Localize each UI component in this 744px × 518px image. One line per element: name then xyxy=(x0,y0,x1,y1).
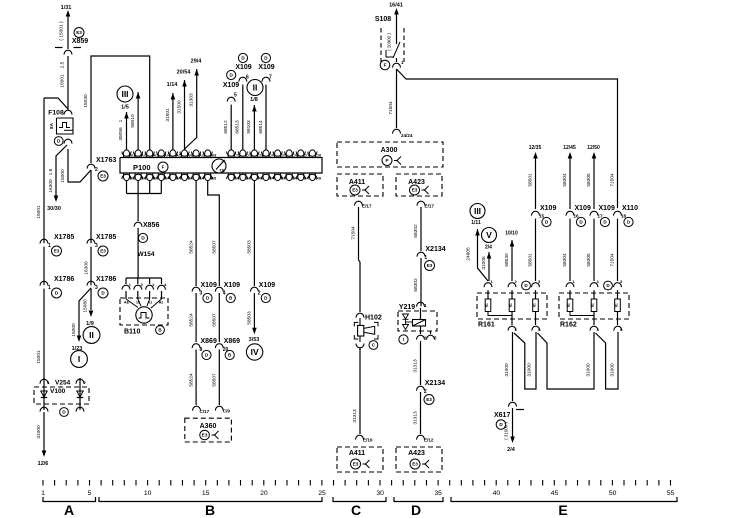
svg-text:III: III xyxy=(121,89,128,99)
svg-text:12/45: 12/45 xyxy=(563,145,576,151)
svg-text:15001: 15001 xyxy=(36,350,42,364)
svg-text:1/14: 1/14 xyxy=(167,82,179,88)
svg-text:58503: 58503 xyxy=(247,311,253,325)
svg-text:E3: E3 xyxy=(202,433,208,438)
svg-text:31313: 31313 xyxy=(413,411,419,425)
svg-text:A/8: A/8 xyxy=(211,154,217,158)
section bracket E xyxy=(451,497,677,502)
svg-text:58524: 58524 xyxy=(188,240,194,254)
svg-text:X110: X110 xyxy=(622,205,638,212)
svg-text:2/4: 2/4 xyxy=(485,245,492,251)
svg-text:X869: X869 xyxy=(201,338,217,345)
svg-text:Y219: Y219 xyxy=(399,304,415,311)
svg-text:2: 2 xyxy=(424,389,427,395)
section bracket A xyxy=(43,497,96,502)
svg-text:3: 3 xyxy=(200,291,203,297)
svg-text:68514: 68514 xyxy=(258,120,264,134)
svg-text:S108: S108 xyxy=(375,16,391,23)
svg-text:50: 50 xyxy=(609,490,617,497)
svg-text:58501: 58501 xyxy=(528,173,534,187)
svg-text:15000: 15000 xyxy=(60,169,66,183)
svg-text:1: 1 xyxy=(401,60,404,65)
control unit P100 box xyxy=(120,158,322,174)
svg-text:20: 20 xyxy=(260,490,268,497)
svg-text:16300: 16300 xyxy=(84,261,90,275)
connector X869 pin 20 xyxy=(218,348,221,351)
svg-text:E3: E3 xyxy=(352,188,358,193)
svg-text:X109: X109 xyxy=(258,64,274,71)
svg-text:3/53: 3/53 xyxy=(249,337,260,343)
diode V254 xyxy=(79,378,81,410)
svg-text:15001: 15001 xyxy=(60,74,66,88)
svg-text:4: 4 xyxy=(223,291,226,297)
wire 58524 B/7 chain xyxy=(195,180,197,286)
svg-text:V254: V254 xyxy=(55,380,71,387)
svg-text:X109: X109 xyxy=(259,282,275,289)
svg-text:A411: A411 xyxy=(349,450,365,457)
svg-text:X2134: X2134 xyxy=(425,246,445,253)
Y219 pins 2 and 5 xyxy=(420,326,422,334)
svg-text:1: 1 xyxy=(41,490,45,497)
svg-text:W154: W154 xyxy=(138,251,155,258)
svg-text:1: 1 xyxy=(129,283,131,287)
svg-text:E3: E3 xyxy=(100,174,106,179)
svg-text:X109: X109 xyxy=(575,205,591,212)
svg-text:1: 1 xyxy=(424,303,427,308)
svg-text:D: D xyxy=(411,502,421,518)
svg-text:31303: 31303 xyxy=(189,93,195,107)
svg-text:F.B: F.B xyxy=(220,169,225,173)
svg-text:I: I xyxy=(403,337,404,342)
svg-text:68530: 68530 xyxy=(504,253,510,267)
svg-text:E3: E3 xyxy=(353,462,359,467)
svg-text:2.5: 2.5 xyxy=(60,61,66,68)
control unit A360 xyxy=(185,418,232,442)
svg-text:X1763: X1763 xyxy=(96,157,116,164)
svg-text:30: 30 xyxy=(376,490,384,497)
svg-text:( 31000 ): ( 31000 ) xyxy=(504,422,509,440)
svg-text:X109: X109 xyxy=(224,282,240,289)
wire 31313 to E/12 xyxy=(420,392,422,434)
svg-text:8A: 8A xyxy=(49,122,54,129)
svg-text:B/8: B/8 xyxy=(211,177,217,181)
fuse F108 8A xyxy=(67,114,70,117)
svg-text:P100: P100 xyxy=(133,163,151,172)
svg-text:24805: 24805 xyxy=(466,247,472,261)
P100 pin row A (top) xyxy=(124,150,130,154)
svg-text:1/9: 1/9 xyxy=(86,321,94,327)
svg-text:5: 5 xyxy=(434,336,437,341)
svg-text:E/17: E/17 xyxy=(425,204,435,209)
svg-text:3: 3 xyxy=(141,283,143,287)
svg-text:10: 10 xyxy=(144,490,152,497)
crossover wire R161.6 to R162.4 xyxy=(538,332,595,389)
svg-text:E: E xyxy=(558,502,567,518)
wire 31501 A/5 to 1/14 xyxy=(172,93,174,150)
svg-text:I: I xyxy=(78,354,80,364)
horn H102 xyxy=(359,317,362,320)
wire 31313 to E/10 xyxy=(359,347,361,434)
resistor pack R162 xyxy=(559,293,629,319)
wire 71504 to horn xyxy=(358,207,360,260)
svg-text:X109: X109 xyxy=(599,205,615,212)
svg-text:E3: E3 xyxy=(76,30,82,35)
svg-text:68302: 68302 xyxy=(413,224,419,238)
wire 31000 R161.4 to X617 xyxy=(512,332,514,401)
svg-text:31501: 31501 xyxy=(165,108,171,122)
svg-text:( 20900 ): ( 20900 ) xyxy=(387,33,392,51)
svg-text:2: 2 xyxy=(95,167,98,173)
svg-text:X109: X109 xyxy=(540,205,556,212)
svg-text:E/17: E/17 xyxy=(362,204,372,209)
connector X869 pin 8 xyxy=(195,348,198,351)
wire 71504 down to A300 xyxy=(396,69,398,128)
svg-text:58010: 58010 xyxy=(130,114,136,128)
svg-text:31500: 31500 xyxy=(176,100,182,114)
svg-text:E3: E3 xyxy=(54,249,60,254)
svg-text:P: P xyxy=(385,158,388,163)
svg-text:B110: B110 xyxy=(124,329,140,336)
svg-text:58304: 58304 xyxy=(562,173,568,187)
wire 31000 to ground 12/6 xyxy=(43,412,45,451)
svg-text:F: F xyxy=(384,63,387,68)
wires B/1-B/4 to X856 xyxy=(126,180,128,194)
connector E/17 (A411) xyxy=(357,205,360,208)
ground loop R161 pin 6 xyxy=(514,332,536,389)
wire 58010 A/2 xyxy=(137,92,139,150)
svg-text:58304: 58304 xyxy=(562,253,568,267)
wire 15000 back to fuse output xyxy=(68,149,91,182)
svg-text:1: 1 xyxy=(48,285,51,291)
svg-text:X2134: X2134 xyxy=(425,380,445,387)
wire 71504 R162.3 to X110 pin 18 xyxy=(617,216,619,281)
control unit A411 (top) xyxy=(337,174,383,196)
diode box V254 / V100 xyxy=(43,383,46,386)
svg-text:35: 35 xyxy=(434,490,442,497)
svg-text:D/8: D/8 xyxy=(315,177,321,181)
wire 15001 2.5 to fuse F108 xyxy=(67,56,69,110)
svg-text:X856: X856 xyxy=(143,222,159,229)
svg-text:C/9: C/9 xyxy=(223,409,231,414)
connector X1786 pin 3 xyxy=(90,285,93,288)
svg-text:X109: X109 xyxy=(235,64,251,71)
resistor pack R161 xyxy=(477,293,547,319)
svg-text:X869: X869 xyxy=(224,338,240,345)
left rail 15001 top corner xyxy=(44,98,68,109)
speed sensor B110 xyxy=(126,277,162,279)
wire 31006 R161.1 to 2/4, circle V xyxy=(488,252,490,281)
svg-text:16300: 16300 xyxy=(48,179,54,193)
connector E/10 into A411 xyxy=(358,439,361,442)
svg-text:68302: 68302 xyxy=(413,278,419,292)
svg-text:X1785: X1785 xyxy=(54,234,74,241)
svg-text:E/10: E/10 xyxy=(363,438,373,443)
svg-text:E3: E3 xyxy=(412,188,418,193)
wire 16300 1.5 to 30/30 xyxy=(56,145,67,196)
svg-text:8: 8 xyxy=(200,347,203,353)
P100 pin row B (bottom) xyxy=(124,177,130,181)
svg-text:31000: 31000 xyxy=(610,363,616,377)
svg-text:71504: 71504 xyxy=(388,101,394,115)
connector X1785 pin 3 xyxy=(90,243,93,246)
section bracket D xyxy=(394,497,443,502)
svg-text:31000: 31000 xyxy=(36,425,42,439)
wire 58305 R162.2 to X109 pin 17 and 12/50 xyxy=(593,216,595,281)
svg-text:16/41: 16/41 xyxy=(389,3,403,9)
svg-text:31000: 31000 xyxy=(504,363,510,377)
svg-text:31313: 31313 xyxy=(413,359,419,373)
wire 31313 xyxy=(420,341,422,385)
svg-text:X859: X859 xyxy=(72,38,88,45)
svg-text:R1: R1 xyxy=(567,303,571,307)
svg-text:E3: E3 xyxy=(427,263,433,268)
svg-text:31000: 31000 xyxy=(527,363,533,377)
switch output: circle F, pin 1 xyxy=(380,60,390,70)
svg-text:X617: X617 xyxy=(494,412,510,419)
svg-text:R1: R1 xyxy=(591,303,595,307)
wire 58304 R162.1 to X109 pin 16 and 12/45 xyxy=(569,216,571,281)
svg-text:IV: IV xyxy=(251,347,259,357)
svg-text:58501: 58501 xyxy=(528,253,534,267)
control unit A411 (bottom) xyxy=(337,447,383,472)
svg-text:H102: H102 xyxy=(365,315,382,322)
wire 24805 R161.1 to 1/11, circle III xyxy=(478,229,489,281)
svg-text:68513: 68513 xyxy=(235,120,241,134)
P100 pin row D (bottom) xyxy=(228,177,234,181)
wire 68530 R161.2 to 10/10 xyxy=(511,240,513,281)
svg-text:58103: 58103 xyxy=(246,120,252,134)
svg-text:3: 3 xyxy=(95,285,98,291)
connector X2134 pin 2 xyxy=(419,390,422,393)
svg-text:R1: R1 xyxy=(615,303,619,307)
wire 15001 left rail xyxy=(43,98,45,380)
svg-text:2: 2 xyxy=(152,283,154,287)
svg-text:X1786: X1786 xyxy=(54,276,74,283)
svg-text:12/6: 12/6 xyxy=(38,461,49,467)
connector E/12 into A423 xyxy=(419,439,422,442)
svg-text:B: B xyxy=(205,502,215,518)
svg-text:X1785: X1785 xyxy=(96,234,116,241)
svg-text:III: III xyxy=(474,206,481,216)
svg-text:15: 15 xyxy=(202,490,210,497)
connector X1785 pin 1 xyxy=(43,243,46,246)
connector C/9 into A360 xyxy=(218,410,221,413)
wire 16300 down xyxy=(90,170,92,310)
svg-text:R1: R1 xyxy=(509,303,513,307)
svg-text:1/31: 1/31 xyxy=(61,5,72,11)
svg-text:E3: E3 xyxy=(100,249,106,254)
svg-text:( 15001 ): ( 15001 ) xyxy=(59,21,65,41)
svg-text:58507: 58507 xyxy=(212,373,218,387)
svg-text:71504: 71504 xyxy=(610,253,616,267)
svg-text:X109: X109 xyxy=(223,82,239,89)
svg-text:V: V xyxy=(486,230,492,240)
svg-text:31000: 31000 xyxy=(586,363,592,377)
svg-text:1/11: 1/11 xyxy=(471,220,481,226)
connector X109 pin 2 xyxy=(253,291,256,294)
svg-text:3: 3 xyxy=(95,243,98,249)
svg-text:A360: A360 xyxy=(200,423,217,430)
svg-text:II: II xyxy=(253,82,258,92)
svg-text:15001: 15001 xyxy=(36,205,42,219)
svg-text:2: 2 xyxy=(258,291,261,297)
svg-text:55: 55 xyxy=(667,490,675,497)
svg-text:30/30: 30/30 xyxy=(47,206,61,212)
svg-text:X1786: X1786 xyxy=(96,276,116,283)
wire 71504 branch to section E xyxy=(397,69,618,208)
svg-text:R1: R1 xyxy=(485,303,489,307)
svg-text:1/8: 1/8 xyxy=(250,97,258,103)
svg-text:E3: E3 xyxy=(412,462,418,467)
svg-text:12/50: 12/50 xyxy=(587,145,600,151)
wire 58507 B/8 chain xyxy=(208,180,220,286)
wire 68302 to Y219 xyxy=(420,258,422,308)
wire 68512 C/1 to X109 pin 5 xyxy=(230,101,232,150)
svg-text:5: 5 xyxy=(88,490,92,497)
svg-text:58507: 58507 xyxy=(212,240,218,254)
svg-text:58503: 58503 xyxy=(247,240,253,254)
connector X1786 pin 1 xyxy=(43,285,46,288)
control unit A300 xyxy=(337,142,443,167)
svg-text:29/4: 29/4 xyxy=(191,59,203,65)
svg-text:C: C xyxy=(351,502,361,518)
svg-text:C/17: C/17 xyxy=(200,409,210,414)
wire 31303 A/6 to 29/4 xyxy=(185,69,197,149)
svg-text:1.5: 1.5 xyxy=(48,168,54,175)
section bracket B xyxy=(99,497,322,502)
svg-text:R162: R162 xyxy=(560,322,577,329)
svg-text:58305: 58305 xyxy=(586,253,592,267)
wire W154 to B110 xyxy=(137,228,139,278)
wire 68302 from E/17 xyxy=(420,207,422,251)
svg-text:58524: 58524 xyxy=(188,313,194,327)
svg-text:R161: R161 xyxy=(478,322,495,329)
svg-text:2/4: 2/4 xyxy=(507,447,516,453)
svg-text:40: 40 xyxy=(493,490,501,497)
diode V100 xyxy=(43,378,45,410)
svg-text:58524: 58524 xyxy=(188,373,194,387)
connector X859 xyxy=(55,47,63,49)
svg-text:1/5: 1/5 xyxy=(121,105,129,111)
fuse output node, circle D xyxy=(54,137,63,146)
svg-text:C/8: C/8 xyxy=(315,154,321,158)
svg-text:39056: 39056 xyxy=(118,127,124,141)
wire 15000 to node 1/23, circle I xyxy=(79,288,91,336)
wire 68513 C/2 to X109 pin 6 xyxy=(242,81,244,150)
svg-text:45: 45 xyxy=(551,490,559,497)
wire 15030 from P100 A/3 corner xyxy=(91,56,150,163)
connector X617 xyxy=(511,406,514,409)
svg-text:58305: 58305 xyxy=(586,173,592,187)
wire 68514 C/4 to X109 pin 7 xyxy=(265,81,267,150)
svg-text:X109: X109 xyxy=(201,282,217,289)
svg-text:F: F xyxy=(162,165,165,170)
svg-text:31313: 31313 xyxy=(352,409,358,423)
wire 15001 from 1/31 to X859 xyxy=(67,16,69,49)
svg-text:58507: 58507 xyxy=(212,313,218,327)
svg-text:A423: A423 xyxy=(408,450,425,457)
wire 58103 C/3 to 1/8, circle II xyxy=(253,105,255,150)
svg-text:5: 5 xyxy=(234,93,237,99)
connector X2134 pin 1 xyxy=(420,256,423,259)
svg-text:15000: 15000 xyxy=(71,323,77,337)
wire 31500 A/6 to 20/54 xyxy=(184,80,186,150)
connector C/17 into A360 xyxy=(195,410,198,413)
svg-text:24/24: 24/24 xyxy=(401,133,413,138)
svg-text:1: 1 xyxy=(48,243,51,249)
svg-text:10/10: 10/10 xyxy=(505,231,518,237)
svg-text:V100: V100 xyxy=(50,388,66,395)
control unit A423 (top) xyxy=(396,174,442,196)
svg-text:E/12: E/12 xyxy=(424,438,434,443)
control unit A423 (bottom) xyxy=(396,447,442,472)
wire 58501 R161.3 to X109 pin 15 and 12/35 xyxy=(535,216,537,281)
svg-text:6: 6 xyxy=(246,75,249,81)
svg-text:R1: R1 xyxy=(533,303,537,307)
svg-text:31006: 31006 xyxy=(481,256,487,270)
connector E/17 (A423) xyxy=(420,205,423,208)
connector X109 pin 4 xyxy=(218,291,221,294)
svg-text:E3: E3 xyxy=(426,397,432,402)
svg-text:15030: 15030 xyxy=(83,94,89,108)
ruler scale xyxy=(42,480,44,486)
svg-text:71504: 71504 xyxy=(351,226,357,240)
P100 pin row C (top) xyxy=(228,150,234,154)
gauge symbol xyxy=(212,159,226,173)
connector X856 xyxy=(137,226,140,229)
connector 24/24 into A300 xyxy=(395,133,398,136)
svg-text:25: 25 xyxy=(318,490,326,497)
svg-text:A: A xyxy=(64,502,74,518)
svg-text:20/54: 20/54 xyxy=(177,70,192,76)
svg-text:15080: 15080 xyxy=(83,299,89,313)
svg-text:F108: F108 xyxy=(48,110,64,117)
svg-text:II: II xyxy=(89,330,94,340)
wire 39056 A/1 to 1/5, circle III xyxy=(126,112,128,150)
wire 58503 D/3 to 3/53, circle IV xyxy=(253,180,255,286)
svg-text:1: 1 xyxy=(424,255,427,261)
svg-text:7: 7 xyxy=(269,75,272,81)
section bracket C xyxy=(333,497,386,502)
svg-text:12/35: 12/35 xyxy=(529,145,542,151)
svg-text:A300: A300 xyxy=(381,147,398,154)
svg-text:71504: 71504 xyxy=(610,173,616,187)
connector X109 pin 3 xyxy=(195,291,198,294)
ground loop R162 pin 6 xyxy=(596,332,619,389)
connector X1763 pin 2 xyxy=(90,168,93,171)
svg-text:68512: 68512 xyxy=(223,120,229,134)
